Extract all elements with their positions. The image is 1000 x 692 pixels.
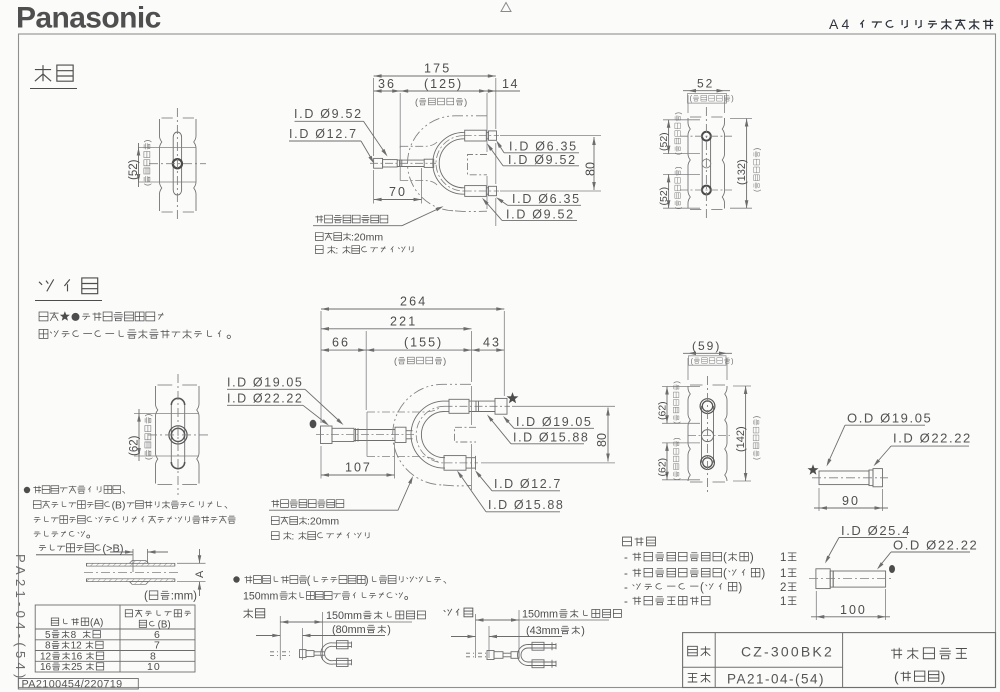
gas U: hidden inner insulation rect (455, 427, 477, 442)
bottom-left doc number box (18, 679, 138, 690)
gas right CS dim (59) (687, 358, 689, 380)
svg-text:(52): (52) (658, 187, 670, 206)
svg-text:80: 80 (584, 162, 598, 176)
svg-text:43: 43 (483, 336, 501, 350)
liquid dim 36 / (125) / 14 (374, 90, 520, 92)
accessories title 付属品 (623, 537, 632, 546)
svg-text:(59): (59) (692, 339, 721, 353)
liquid right cross-section body (690, 117, 723, 210)
gas insulation notes (271, 517, 279, 525)
gas U: inlet tube (354, 429, 395, 431)
svg-text:(: ( (752, 457, 761, 460)
liquid U: upper leg (464, 131, 465, 133)
liquid left cross-section pipe hole (173, 159, 182, 168)
svg-text:I.D Ø22.22: I.D Ø22.22 (893, 431, 972, 446)
svg-text:): ) (738, 582, 742, 594)
svg-text:1: 1 (780, 568, 786, 580)
svg-text:(142): (142) (735, 426, 747, 452)
mini gas ext lines (475, 614, 477, 658)
liquid dim 80 (593, 137, 595, 190)
gas left cross-section body (158, 385, 198, 485)
liquid insulation notes (315, 233, 323, 241)
gas U: bend arcs (421, 412, 444, 458)
rule bullet (233, 576, 239, 582)
liquid right CS dim 52 top (687, 95, 689, 113)
svg-text:I.D Ø19.05: I.D Ø19.05 (516, 415, 592, 429)
gas dim 80 (607, 408, 609, 462)
liquid dim 175 (374, 75, 496, 77)
gas dim 264 (321, 308, 504, 310)
title block 品番 (688, 646, 698, 655)
svg-text::20mm: :20mm (307, 516, 339, 528)
svg-text:80: 80 (595, 433, 609, 447)
gas note line1 記号★●... (39, 312, 48, 321)
svg-text:(A): (A) (90, 618, 103, 629)
gas dim 80 ext lines (512, 405, 615, 407)
svg-text:O.D Ø22.22: O.D Ø22.22 (893, 537, 978, 552)
svg-text:(62): (62) (129, 435, 141, 456)
mini gas U drawing (466, 652, 474, 654)
gas left CS centerlines (177, 374, 179, 495)
svg-text:25: 25 (71, 662, 83, 673)
svg-text:(: ( (394, 356, 397, 366)
svg-text:): ) (761, 568, 765, 580)
liquid left cross-section body (162, 118, 195, 212)
cutting note line2 (33, 501, 41, 509)
svg-text:): ) (387, 624, 391, 636)
svg-text:16: 16 (71, 652, 83, 663)
gas right CS dim (142) (733, 385, 751, 387)
svg-text:10: 10 (147, 661, 161, 673)
svg-text::: : (291, 531, 294, 543)
gas right CS left (62) dims (662, 386, 700, 388)
title block 図番 (688, 673, 698, 682)
liquid U: hidden inner insulation rect (468, 155, 488, 175)
gas note line2 (39, 330, 48, 339)
svg-text:I.D Ø12.7: I.D Ø12.7 (494, 477, 562, 491)
liquid U: inlet tube (397, 159, 424, 161)
svg-text:): ) (731, 94, 734, 103)
gas U: lower leg (444, 457, 447, 459)
cut pipe socket bump (130, 561, 149, 564)
svg-text:I.D Ø25.4: I.D Ø25.4 (841, 523, 911, 538)
svg-text:): ) (752, 415, 761, 418)
liquid U: inlet insulation phantom (400, 142, 437, 146)
gas right CS pipe holes (700, 399, 715, 414)
svg-text:(52): (52) (128, 159, 140, 180)
svg-text:2: 2 (780, 582, 786, 594)
section title 液管 (liquid pipe) (35, 65, 51, 81)
svg-text:70: 70 (389, 185, 407, 199)
svg-text:(125): (125) (424, 77, 463, 91)
reducer 1 dim 90 (818, 488, 820, 511)
liquid U: bend arcs (439, 139, 464, 188)
svg-text:): ) (143, 139, 152, 142)
svg-text:5: 5 (45, 630, 51, 641)
gas U: upper leg (445, 400, 450, 402)
svg-text:): ) (941, 669, 946, 685)
gas right cross-section body (690, 385, 725, 482)
svg-text:150mm: 150mm (522, 609, 558, 621)
svg-text:I.D Ø22.22: I.D Ø22.22 (227, 392, 303, 406)
svg-text:): ) (443, 356, 446, 366)
svg-text:(52): (52) (658, 132, 670, 151)
liquid right CS dim (132) (730, 118, 752, 120)
svg-text:(: ( (307, 575, 311, 587)
gas U: inlet insulation phantom (367, 407, 440, 412)
svg-text:CZ-300BK2: CZ-300BK2 (741, 644, 834, 660)
gas U: inlet socket (332, 428, 354, 441)
cutting note line4 (34, 532, 41, 537)
svg-text:(62): (62) (657, 401, 669, 420)
mini gas diagram label (444, 609, 452, 616)
gas left CS slot (171, 405, 184, 462)
svg-text:-: - (624, 596, 628, 608)
svg-text:(: ( (700, 582, 704, 594)
svg-text::mm): :mm) (171, 591, 197, 603)
gas left CS dim (62) (138, 409, 140, 461)
reducer 2 body head (816, 569, 830, 589)
gas dim 107 (321, 474, 395, 476)
liquid left CS centerlines (176, 108, 178, 222)
svg-text:(43mm: (43mm (526, 625, 560, 637)
section title ガス管 (39, 279, 54, 291)
svg-text:): ) (581, 625, 585, 637)
gas U: insulation phantom outline (393, 384, 471, 485)
liquid U: inlet pipe cap (374, 158, 383, 168)
liquid left CS dim (52) (138, 143, 140, 187)
svg-text:-: - (624, 552, 628, 564)
svg-text:-: - (624, 582, 628, 594)
gas right CS boxed note (689, 356, 727, 365)
svg-text:I.D Ø9.52: I.D Ø9.52 (508, 153, 577, 167)
liquid U: centerline through pipe (370, 136, 499, 191)
svg-text::20mm: :20mm (351, 232, 383, 244)
svg-text:(155): (155) (404, 336, 443, 350)
svg-text:1: 1 (780, 596, 786, 608)
title block frame (683, 633, 996, 688)
svg-text:): ) (753, 147, 762, 150)
liquid right CS slot (702, 136, 710, 190)
liquid left cross-section slot (173, 132, 181, 195)
svg-text:): ) (144, 413, 153, 416)
liquid U: lower leg (464, 187, 465, 189)
liquid dims: extension verticals (373, 78, 375, 156)
svg-text:A 4: A 4 (829, 16, 849, 32)
svg-text:PA2100454/220719: PA2100454/220719 (22, 678, 123, 690)
svg-text:66: 66 (332, 336, 350, 350)
gas dims: extension verticals (320, 311, 322, 423)
svg-text:14: 14 (502, 77, 519, 91)
reducer 1 body (819, 471, 869, 485)
svg-text:(: ( (894, 669, 899, 685)
gas dim 66 / (155) / 43 (321, 349, 504, 351)
liquid U: inlet joint collar (424, 159, 434, 167)
gas U: star marker upper leg (507, 392, 519, 403)
mini gas dim bottom (451, 636, 476, 638)
reducer 1 centerline (812, 477, 888, 479)
svg-text:I.D Ø6.35: I.D Ø6.35 (512, 192, 581, 206)
reducer 2 body neck (830, 571, 833, 587)
reducer 2 body tube (833, 571, 885, 587)
svg-text:264: 264 (400, 295, 427, 309)
svg-text:I.D Ø9.52: I.D Ø9.52 (294, 107, 363, 121)
gas U: inlet joint collar (395, 427, 406, 442)
liquid right CS centerlines (705, 107, 707, 220)
depth dim arrows (132, 549, 134, 572)
Panasonic Corporation (Japanese) top right (860, 20, 864, 28)
left margin rotated drawing number (13, 554, 28, 683)
svg-text:150mm: 150mm (326, 610, 362, 622)
liquid right CS pipe holes (702, 132, 711, 141)
reducer 2 dim 100 (815, 591, 817, 620)
liquid right CS left (52) dims (663, 119, 700, 121)
svg-text:(B): (B) (112, 501, 126, 512)
liquid right CS boxed note (688, 94, 727, 104)
liquid U: inlet socket (383, 160, 398, 167)
svg-text:12: 12 (71, 641, 83, 652)
svg-text:16: 16 (40, 662, 52, 673)
svg-text:I.D Ø19.05: I.D Ø19.05 (227, 376, 303, 390)
svg-text:150mm: 150mm (243, 591, 278, 603)
liquid dim 70 (374, 199, 422, 201)
svg-text:-: - (624, 568, 628, 580)
svg-text:(: ( (690, 94, 693, 103)
svg-text:I.D Ø15.88: I.D Ø15.88 (488, 498, 564, 512)
cut pipe end edges (86, 563, 88, 566)
svg-text:(62): (62) (657, 458, 669, 477)
svg-text:): ) (750, 552, 754, 564)
gas left CS pipe hole (double) (169, 426, 187, 444)
svg-text:PA21-04-(54): PA21-04-(54) (13, 554, 28, 683)
cutting note line1 (33, 486, 41, 494)
cut pipe centerline (84, 571, 179, 573)
svg-text:(132): (132) (736, 159, 748, 185)
table header left 管の外径(A) (51, 618, 58, 625)
svg-text:100: 100 (840, 603, 867, 617)
svg-text:PA21-04-(54): PA21-04-(54) (727, 672, 825, 687)
mini liquid U drawing (270, 651, 278, 653)
mini liquid ext lines (279, 616, 281, 660)
gas U: centerline (316, 406, 510, 463)
svg-text:(>B): (>B) (102, 543, 123, 555)
svg-text:(: ( (723, 552, 727, 564)
cutting note line3 (34, 518, 41, 523)
svg-text:8: 8 (71, 630, 77, 641)
svg-text:(: ( (144, 591, 148, 603)
svg-text:1: 1 (780, 552, 786, 564)
dim A (177, 562, 206, 564)
mini liquid dim bottom (256, 635, 280, 637)
gas right CS centerlines (707, 376, 709, 492)
svg-text:): ) (365, 575, 369, 587)
svg-text:(: ( (753, 189, 762, 192)
gas right CS slot (702, 406, 714, 463)
svg-text:): ) (464, 97, 467, 107)
liquid left CS break/extension lines (139, 147, 197, 149)
gas dim 221 (321, 328, 472, 330)
svg-text:52: 52 (697, 77, 714, 91)
liquid dim 80 extension lines (500, 135, 601, 137)
svg-text:(: ( (723, 568, 727, 580)
gas left CS ext lines (134, 413, 199, 415)
svg-text:(: ( (415, 97, 418, 107)
svg-text:I.D Ø6.35: I.D Ø6.35 (509, 140, 578, 154)
svg-text:I.D Ø9.52: I.D Ø9.52 (506, 207, 575, 221)
title block 外形寸法図 (891, 648, 902, 659)
liquid U: insulation phantom outline (408, 116, 487, 211)
gas U: marker ● inlet (310, 420, 317, 428)
liquid right CS hidden middle hole (702, 159, 711, 168)
svg-text:36: 36 (378, 77, 396, 91)
registration triangle top center (501, 3, 511, 12)
svg-text:221: 221 (390, 315, 417, 329)
label はまり込み深さ(>B) (39, 546, 46, 551)
gas insulation label (271, 500, 279, 508)
mini gas dim top (476, 619, 520, 621)
reducer 1 star marker (808, 464, 819, 475)
liquid insulation label (315, 215, 323, 223)
svg-text::: : (335, 245, 338, 257)
cutting note bullet (24, 487, 30, 493)
svg-text:175: 175 (424, 62, 451, 76)
svg-text:O.D Ø19.05: O.D Ø19.05 (847, 411, 932, 426)
svg-text:(80mm: (80mm (332, 624, 366, 636)
svg-text:Panasonic: Panasonic (16, 2, 161, 35)
table header right 最小はまり込み深さ(B) (125, 610, 132, 617)
min-depth table frame (35, 605, 195, 672)
svg-text:8: 8 (45, 641, 51, 652)
rule line1 (244, 576, 252, 584)
svg-text:107: 107 (345, 461, 372, 475)
gas U: tube stub to bend (406, 430, 413, 432)
mini liquid diagram label (244, 609, 253, 618)
gas U: inlet cap (321, 426, 333, 444)
mini liquid dim top (280, 621, 322, 623)
reducer 2 centerline (809, 578, 891, 580)
svg-text:12: 12 (40, 652, 52, 663)
svg-text:I.D Ø15.88: I.D Ø15.88 (513, 430, 589, 444)
svg-text:A: A (194, 570, 206, 578)
reducer 2 marker ● (889, 565, 895, 573)
svg-text:(: ( (143, 183, 152, 186)
svg-text:90: 90 (842, 494, 860, 508)
svg-text:(: ( (144, 457, 153, 460)
svg-text:I.D Ø12.7: I.D Ø12.7 (289, 127, 358, 141)
